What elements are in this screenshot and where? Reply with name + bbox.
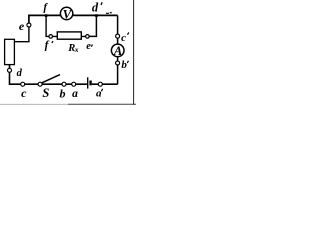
- resistor Rx box: [57, 32, 81, 39]
- svg-text:f: f: [45, 39, 50, 51]
- wire d' branch down to e': [89, 15, 96, 36]
- node d: [8, 68, 12, 72]
- svg-text:e: e: [19, 19, 25, 33]
- rheostat box: [5, 39, 15, 64]
- node b': [116, 61, 120, 65]
- wire resistor row: [51, 35, 88, 37]
- svg-text:c: c: [21, 86, 27, 100]
- wire right vertical: [117, 15, 119, 84]
- battery long plate: [87, 77, 89, 88]
- svg-text:e: e: [86, 41, 91, 52]
- node f junction dot: [45, 14, 48, 17]
- node a': [98, 82, 102, 86]
- svg-text:V: V: [63, 7, 73, 22]
- svg-text:c: c: [121, 32, 126, 44]
- speck noise 2: [110, 12, 112, 14]
- svg-text:x: x: [74, 45, 79, 54]
- node c': [116, 34, 120, 38]
- svg-text:d: d: [92, 1, 99, 15]
- battery short plate: [89, 81, 91, 86]
- node c: [21, 82, 25, 86]
- ammeter A1: [111, 44, 124, 57]
- wire bottom: [10, 65, 118, 85]
- wire f branch down to f': [46, 15, 49, 36]
- svg-text:a: a: [96, 88, 102, 100]
- svg-text:b: b: [121, 59, 127, 71]
- svg-text:a: a: [72, 88, 78, 100]
- battery gap mask: [87, 82, 92, 86]
- node e: [27, 23, 31, 27]
- speck noise left of top-right corner: [106, 13, 109, 14]
- svg-text:A: A: [113, 44, 122, 58]
- wire top: [29, 15, 118, 25]
- svg-text:S: S: [42, 86, 49, 100]
- wire e to rheostat: [14, 25, 29, 42]
- svg-text:d: d: [17, 68, 23, 79]
- page border right: [133, 0, 135, 105]
- switch S lever: [42, 75, 60, 83]
- node b: [62, 82, 66, 86]
- page border bottom: [0, 103, 68, 105]
- voltmeter V1: [60, 7, 72, 19]
- terminal e': [86, 35, 90, 39]
- svg-text:b: b: [60, 87, 66, 101]
- switch S pivot: [38, 82, 42, 86]
- node d' junction dot: [95, 14, 98, 17]
- svg-text:f: f: [43, 2, 48, 14]
- node a: [72, 82, 76, 86]
- terminal f': [49, 35, 53, 39]
